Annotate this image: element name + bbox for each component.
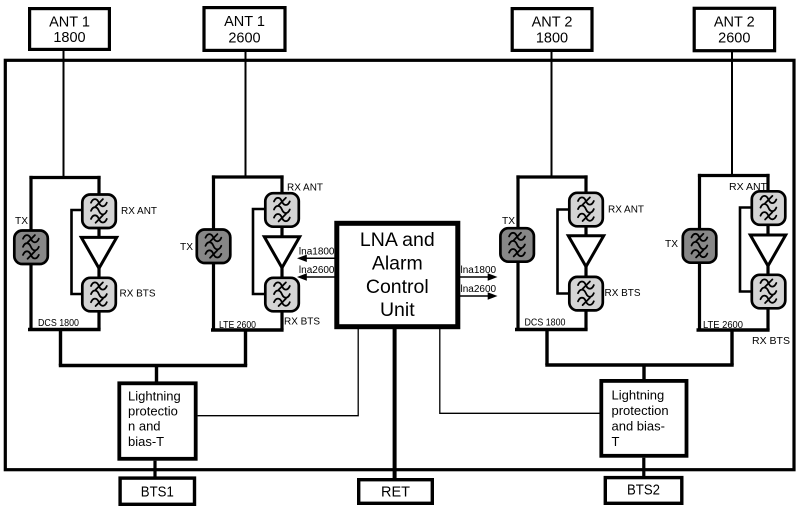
wire C4 bottom bar (697, 328, 770, 331)
filter RX BTS C3 (569, 277, 603, 311)
wire C3 TX branch (516, 175, 519, 329)
filter RX ANT C2 (265, 193, 299, 227)
svg-text:1800: 1800 (53, 30, 85, 46)
svg-text:LNA and: LNA and (360, 229, 435, 251)
svg-text:TX: TX (15, 215, 28, 227)
wire right lightning drop (642, 365, 645, 380)
filter TX C3 (500, 228, 534, 262)
wire antenna drop 4 (731, 51, 733, 176)
box lightning protection left (119, 383, 195, 459)
filter TX C2 (197, 230, 231, 264)
svg-text:Alarm: Alarm (372, 253, 423, 275)
wire left lightning to BTS1 (153, 461, 156, 478)
wire C1 top bar (29, 176, 100, 179)
amplifier C4 (750, 235, 785, 266)
wire C1 RX branch (97, 176, 100, 330)
svg-text:TX: TX (180, 241, 193, 253)
wire C3 RX branch (584, 175, 587, 329)
svg-text:Lightning: Lightning (128, 388, 181, 403)
box BTS2 (605, 478, 682, 504)
svg-text:BTS1: BTS1 (141, 484, 174, 500)
box ANT 1 1800 (30, 9, 110, 50)
svg-text:Lightning: Lightning (612, 387, 665, 402)
svg-text:ANT 2: ANT 2 (532, 15, 573, 31)
box ANT 2 2600 (694, 8, 774, 50)
amplifier C2 (264, 237, 299, 268)
svg-text:Unit: Unit (380, 299, 415, 321)
filter RX ANT C3 (569, 193, 603, 227)
wire C3 bottom bar (515, 328, 588, 331)
wire LNA to right lightning (thin) (440, 329, 600, 413)
svg-text:and bias-: and bias- (612, 419, 665, 434)
svg-text:n and: n and (128, 419, 161, 434)
wire C2 bottom bar (211, 328, 284, 331)
filter RX BTS C2 (265, 278, 299, 312)
filter TX C4 (683, 229, 717, 263)
arrow lna1800 right (460, 265, 498, 281)
svg-text:Control: Control (366, 276, 429, 298)
wire C4 bypass (740, 208, 753, 292)
box RET (359, 480, 433, 504)
svg-text:lna2600: lna2600 (299, 265, 335, 276)
wire C4 RX branch (766, 174, 769, 330)
wire C2 TX branch (212, 175, 215, 330)
wire C4 drop (730, 330, 733, 365)
wire left Y bar (59, 364, 247, 367)
wire right Y bar (545, 363, 733, 366)
svg-text:lna2600: lna2600 (461, 284, 497, 295)
svg-text:TX: TX (502, 215, 515, 227)
svg-text:LTE 2600: LTE 2600 (219, 319, 256, 331)
arrow lna2600 left (297, 265, 336, 281)
filter RX ANT C1 (82, 195, 116, 229)
svg-text:ANT 2: ANT 2 (714, 15, 755, 31)
svg-text:RX ANT: RX ANT (608, 204, 645, 216)
svg-text:RX ANT: RX ANT (121, 205, 158, 217)
wire C4 top bar (698, 174, 770, 177)
amplifier C3 (568, 236, 603, 267)
svg-text:2600: 2600 (228, 31, 260, 47)
filter TX C1 (14, 231, 48, 265)
main enclosure rectangle (5, 60, 794, 469)
filter RX ANT C4 (752, 191, 786, 225)
svg-text:lna1800: lna1800 (461, 265, 497, 276)
svg-text:RX BTS: RX BTS (752, 335, 790, 347)
wire C3 drop (545, 330, 548, 366)
svg-text:protectio: protectio (128, 404, 178, 419)
wire C1 TX branch (29, 176, 32, 330)
svg-text:1800: 1800 (536, 31, 568, 47)
wire C3 top bar (516, 175, 587, 178)
svg-text:protection: protection (612, 403, 669, 418)
wire C2 top bar (212, 175, 284, 178)
filter RX BTS C1 (82, 278, 116, 312)
box ANT 2 1800 (512, 9, 592, 51)
wire C1 drop (59, 330, 62, 366)
wire left lightning drop (155, 366, 158, 383)
svg-text:RX ANT: RX ANT (287, 182, 324, 194)
box lightning protection right (601, 381, 686, 456)
svg-text:lna1800: lna1800 (299, 247, 335, 258)
svg-text:2600: 2600 (718, 31, 750, 47)
svg-text:ANT 1: ANT 1 (49, 15, 90, 31)
svg-text:T: T (612, 434, 620, 449)
wire antenna drop 3 (551, 51, 553, 177)
wire C2 bypass (253, 209, 267, 294)
svg-text:ANT 1: ANT 1 (224, 14, 265, 30)
wire LNA to RET (thick) (393, 329, 397, 479)
box BTS1 (120, 478, 194, 504)
wire antenna drop 2 (245, 51, 247, 177)
wire C1 bypass (72, 210, 85, 294)
svg-text:LTE 2600: LTE 2600 (703, 319, 743, 331)
svg-text:bias-T: bias-T (128, 434, 164, 449)
wire C1 bottom bar (28, 328, 101, 331)
wire C4 TX branch (698, 174, 701, 330)
svg-text:BTS2: BTS2 (627, 483, 660, 499)
wire C3 bypass (558, 210, 572, 294)
box ANT 1 2600 (204, 8, 285, 51)
arrow lna2600 right (460, 284, 498, 300)
arrow lna1800 left (297, 247, 336, 263)
svg-text:RX BTS: RX BTS (284, 316, 320, 328)
svg-text:TX: TX (665, 238, 678, 250)
wire LNA to left lightning (thin) (198, 329, 359, 416)
svg-text:RET: RET (381, 485, 410, 501)
wire C2 drop (244, 330, 247, 366)
amplifier C1 (81, 237, 116, 268)
wire C2 RX branch (280, 175, 283, 330)
svg-text:DCS 1800: DCS 1800 (525, 317, 566, 329)
svg-text:DCS 1800: DCS 1800 (38, 317, 79, 329)
svg-text:RX BTS: RX BTS (120, 288, 156, 300)
svg-text:RX BTS: RX BTS (605, 287, 641, 299)
wire right lightning to BTS2 (642, 458, 645, 477)
box LNA and Alarm Control Unit (337, 223, 458, 326)
wire antenna drop 1 (63, 50, 65, 178)
filter RX BTS C4 (752, 275, 786, 309)
